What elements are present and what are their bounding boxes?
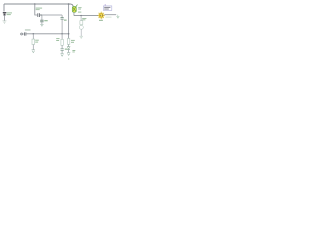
C3 value text <box>64 20 67 21</box>
R4 text right <box>71 40 75 43</box>
wire mid horizontal <box>40 14 62 16</box>
junction node input end <box>68 33 70 35</box>
wire LED row right <box>104 14 116 16</box>
junction dot rail right <box>68 3 70 5</box>
wire meter stub <box>80 16 82 21</box>
LED label text <box>99 20 103 21</box>
meter label text <box>82 18 86 20</box>
wire meter bottom <box>80 29 82 36</box>
junction node R2 top <box>32 33 34 35</box>
capacitor C3 plates <box>61 18 64 20</box>
ground C4 <box>61 54 64 57</box>
wire C3 to node <box>61 19 63 34</box>
ground meter <box>80 36 84 38</box>
meter box component <box>80 21 83 25</box>
R1 value text 2.2k <box>36 8 42 10</box>
wire R2 stub <box>32 34 34 39</box>
wire lamp bottom lead <box>73 12 75 15</box>
wire input lead <box>23 33 24 35</box>
wire C3 corner down <box>61 15 63 17</box>
capacitor C2 series plates <box>38 13 40 17</box>
wire D2 bottom <box>68 50 70 53</box>
wire R2 bottom <box>32 45 34 50</box>
wire R3 bottom <box>61 45 63 48</box>
resistor R3 box <box>61 39 63 45</box>
diode D2 <box>67 47 70 50</box>
wire LED row left <box>74 15 98 17</box>
ground shunt cap <box>40 25 43 27</box>
R2 text <box>35 40 39 43</box>
voltage source V1 <box>3 12 7 21</box>
resistor R4 box <box>67 39 69 45</box>
meter circle component <box>79 25 83 29</box>
wire top rail <box>4 4 73 7</box>
junction node C3 bottom <box>61 33 63 35</box>
C1 label text <box>25 29 31 30</box>
wire R1 vertical with corner <box>35 4 38 15</box>
lamp label text <box>78 7 82 12</box>
wire R3 stub <box>61 34 63 40</box>
plus sign of C2 <box>40 14 41 15</box>
junction dot on rail <box>34 3 36 5</box>
tooltip readout box <box>103 6 111 10</box>
ground D2 <box>67 53 70 56</box>
capacitor C4 plates <box>61 49 64 51</box>
cap value text 10u <box>44 20 47 21</box>
ground under V1 <box>3 21 7 23</box>
wire input horizontal <box>26 33 68 35</box>
input terminal circle <box>21 33 23 35</box>
capacitor C1 plates <box>24 32 26 35</box>
resistor R2 box <box>32 39 35 44</box>
R3 text left <box>56 38 59 41</box>
wire V1 top lead <box>3 4 5 12</box>
wire R4 bottom <box>68 44 70 46</box>
ground net label dot <box>68 59 69 60</box>
faint label under right wire <box>106 17 112 18</box>
right end ground faint <box>116 15 119 18</box>
junction meter column <box>80 15 81 16</box>
wire long vertical <box>68 4 70 38</box>
lamp highlighted yellow <box>72 5 77 13</box>
tooltip pointer mark <box>105 4 106 5</box>
wire below shunt cap <box>41 22 43 24</box>
D2 text right <box>72 50 75 52</box>
ground R2 <box>32 50 35 53</box>
C4 text right <box>65 49 68 50</box>
capacitor shunt plates <box>40 20 43 22</box>
LED D1 glow <box>98 12 105 20</box>
wire C4 bottom <box>61 51 63 54</box>
wire shunt cap stub <box>41 15 43 20</box>
V1 label text <box>7 12 12 15</box>
